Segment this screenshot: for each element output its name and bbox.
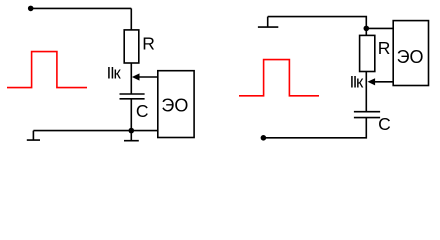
svg-text:R: R bbox=[142, 33, 155, 53]
arrowhead pointing left at RC node, right circuit bbox=[368, 78, 376, 85]
svg-text:IIк: IIк bbox=[107, 65, 122, 83]
wire: arrow line from oscilloscope to RC node, right circuit bbox=[374, 81, 393, 83]
pulse waveform (red), right circuit bbox=[239, 60, 319, 96]
svg-text:IIк: IIк bbox=[350, 74, 364, 92]
svg-text:R: R bbox=[378, 38, 391, 58]
svg-text:ЭО: ЭО bbox=[161, 96, 188, 116]
wire: capacitor to bottom rail and left run, right circuit bbox=[263, 118, 366, 138]
ground: stub and bar below junction, left circuit bbox=[124, 131, 139, 141]
capacitor C bottom plate, left circuit bbox=[120, 98, 145, 100]
wire: bottom rail, left circuit bbox=[33, 130, 157, 132]
wire: resistor bottom to capacitor, right circuit bbox=[365, 72, 367, 112]
resistor R (left circuit) bbox=[124, 30, 139, 63]
wire: vertical drop from top wire to resistor R, left circuit bbox=[130, 8, 132, 30]
node: terminal dot at left end of bottom rail, right circuit bbox=[261, 135, 267, 141]
capacitor C top plate, right circuit bbox=[354, 111, 380, 113]
wire: arrow line from oscilloscope to RC node, left circuit bbox=[139, 76, 158, 78]
op-amp U1: oscilloscope ЭО box, left circuit bbox=[158, 71, 194, 138]
wire: capacitor bottom plate to bottom rail, left circuit bbox=[130, 99, 132, 131]
node A: input terminal dot, left circuit bbox=[28, 6, 34, 12]
svg-text:C: C bbox=[136, 101, 149, 121]
node: junction dot above resistor, right circuit bbox=[364, 26, 370, 32]
ground: left terminal stub and bar, left circuit bbox=[27, 131, 40, 141]
arrowhead pointing left at RC node, left circuit bbox=[132, 73, 140, 80]
capacitor C top plate, left circuit bbox=[120, 93, 145, 95]
wire: top horizontal wire to resistor branch, right circuit bbox=[268, 17, 367, 36]
svg-text:C: C bbox=[378, 114, 391, 134]
ground: input terminal bar with stub, right circuit bbox=[258, 17, 278, 28]
wire: resistor bottom to capacitor top plate, left circuit bbox=[130, 63, 132, 94]
svg-text:ЭО: ЭО bbox=[397, 47, 424, 67]
wire: branch from junction to oscilloscope, right circuit bbox=[366, 27, 393, 29]
node: junction dot on bottom rail, left circuit bbox=[129, 128, 135, 134]
pulse waveform (red), left circuit bbox=[7, 52, 87, 88]
wire: top horizontal wire from terminal to resistor branch, left circuit bbox=[31, 7, 132, 9]
op-amp U2: oscilloscope ЭО box, right circuit bbox=[393, 21, 428, 86]
capacitor C bottom plate, right circuit bbox=[354, 117, 380, 119]
resistor R (right circuit) bbox=[360, 35, 375, 71]
